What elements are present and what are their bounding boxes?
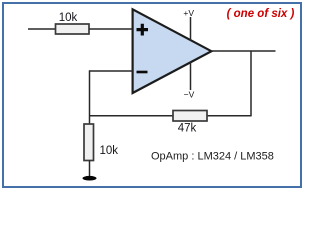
svg-text:+V: +V <box>183 8 194 18</box>
wire input left <box>28 28 56 30</box>
svg-text:OpAmp : LM324 / LM358: OpAmp : LM324 / LM358 <box>151 151 274 163</box>
svg-text:−V: −V <box>184 90 195 100</box>
wire resistor to op-amp + input <box>89 28 133 30</box>
-V supply stub <box>190 62 192 90</box>
+V supply stub <box>190 17 192 41</box>
resistor 47k (feedback) <box>173 111 207 122</box>
resistor 10k (to ground) <box>84 124 94 161</box>
svg-text:( one of six ): ( one of six ) <box>227 8 295 20</box>
wire output <box>211 50 276 52</box>
op-amp U1 triangle <box>133 9 212 93</box>
wire resistor to ground <box>89 161 91 177</box>
ground symbol <box>83 176 97 181</box>
wire op-amp - input to node <box>90 70 134 72</box>
svg-text:10k: 10k <box>59 12 78 24</box>
border frame <box>3 3 301 187</box>
op-amp - input symbol <box>137 71 148 74</box>
svg-text:10k: 10k <box>100 145 119 157</box>
op-amp + input symbol <box>137 24 149 36</box>
svg-text:47k: 47k <box>178 123 197 135</box>
wire node vertical down <box>89 70 91 124</box>
resistor 10k (input) <box>56 24 90 34</box>
wire feedback vertical from output junction <box>250 51 252 116</box>
wire feedback horizontal <box>90 115 252 117</box>
